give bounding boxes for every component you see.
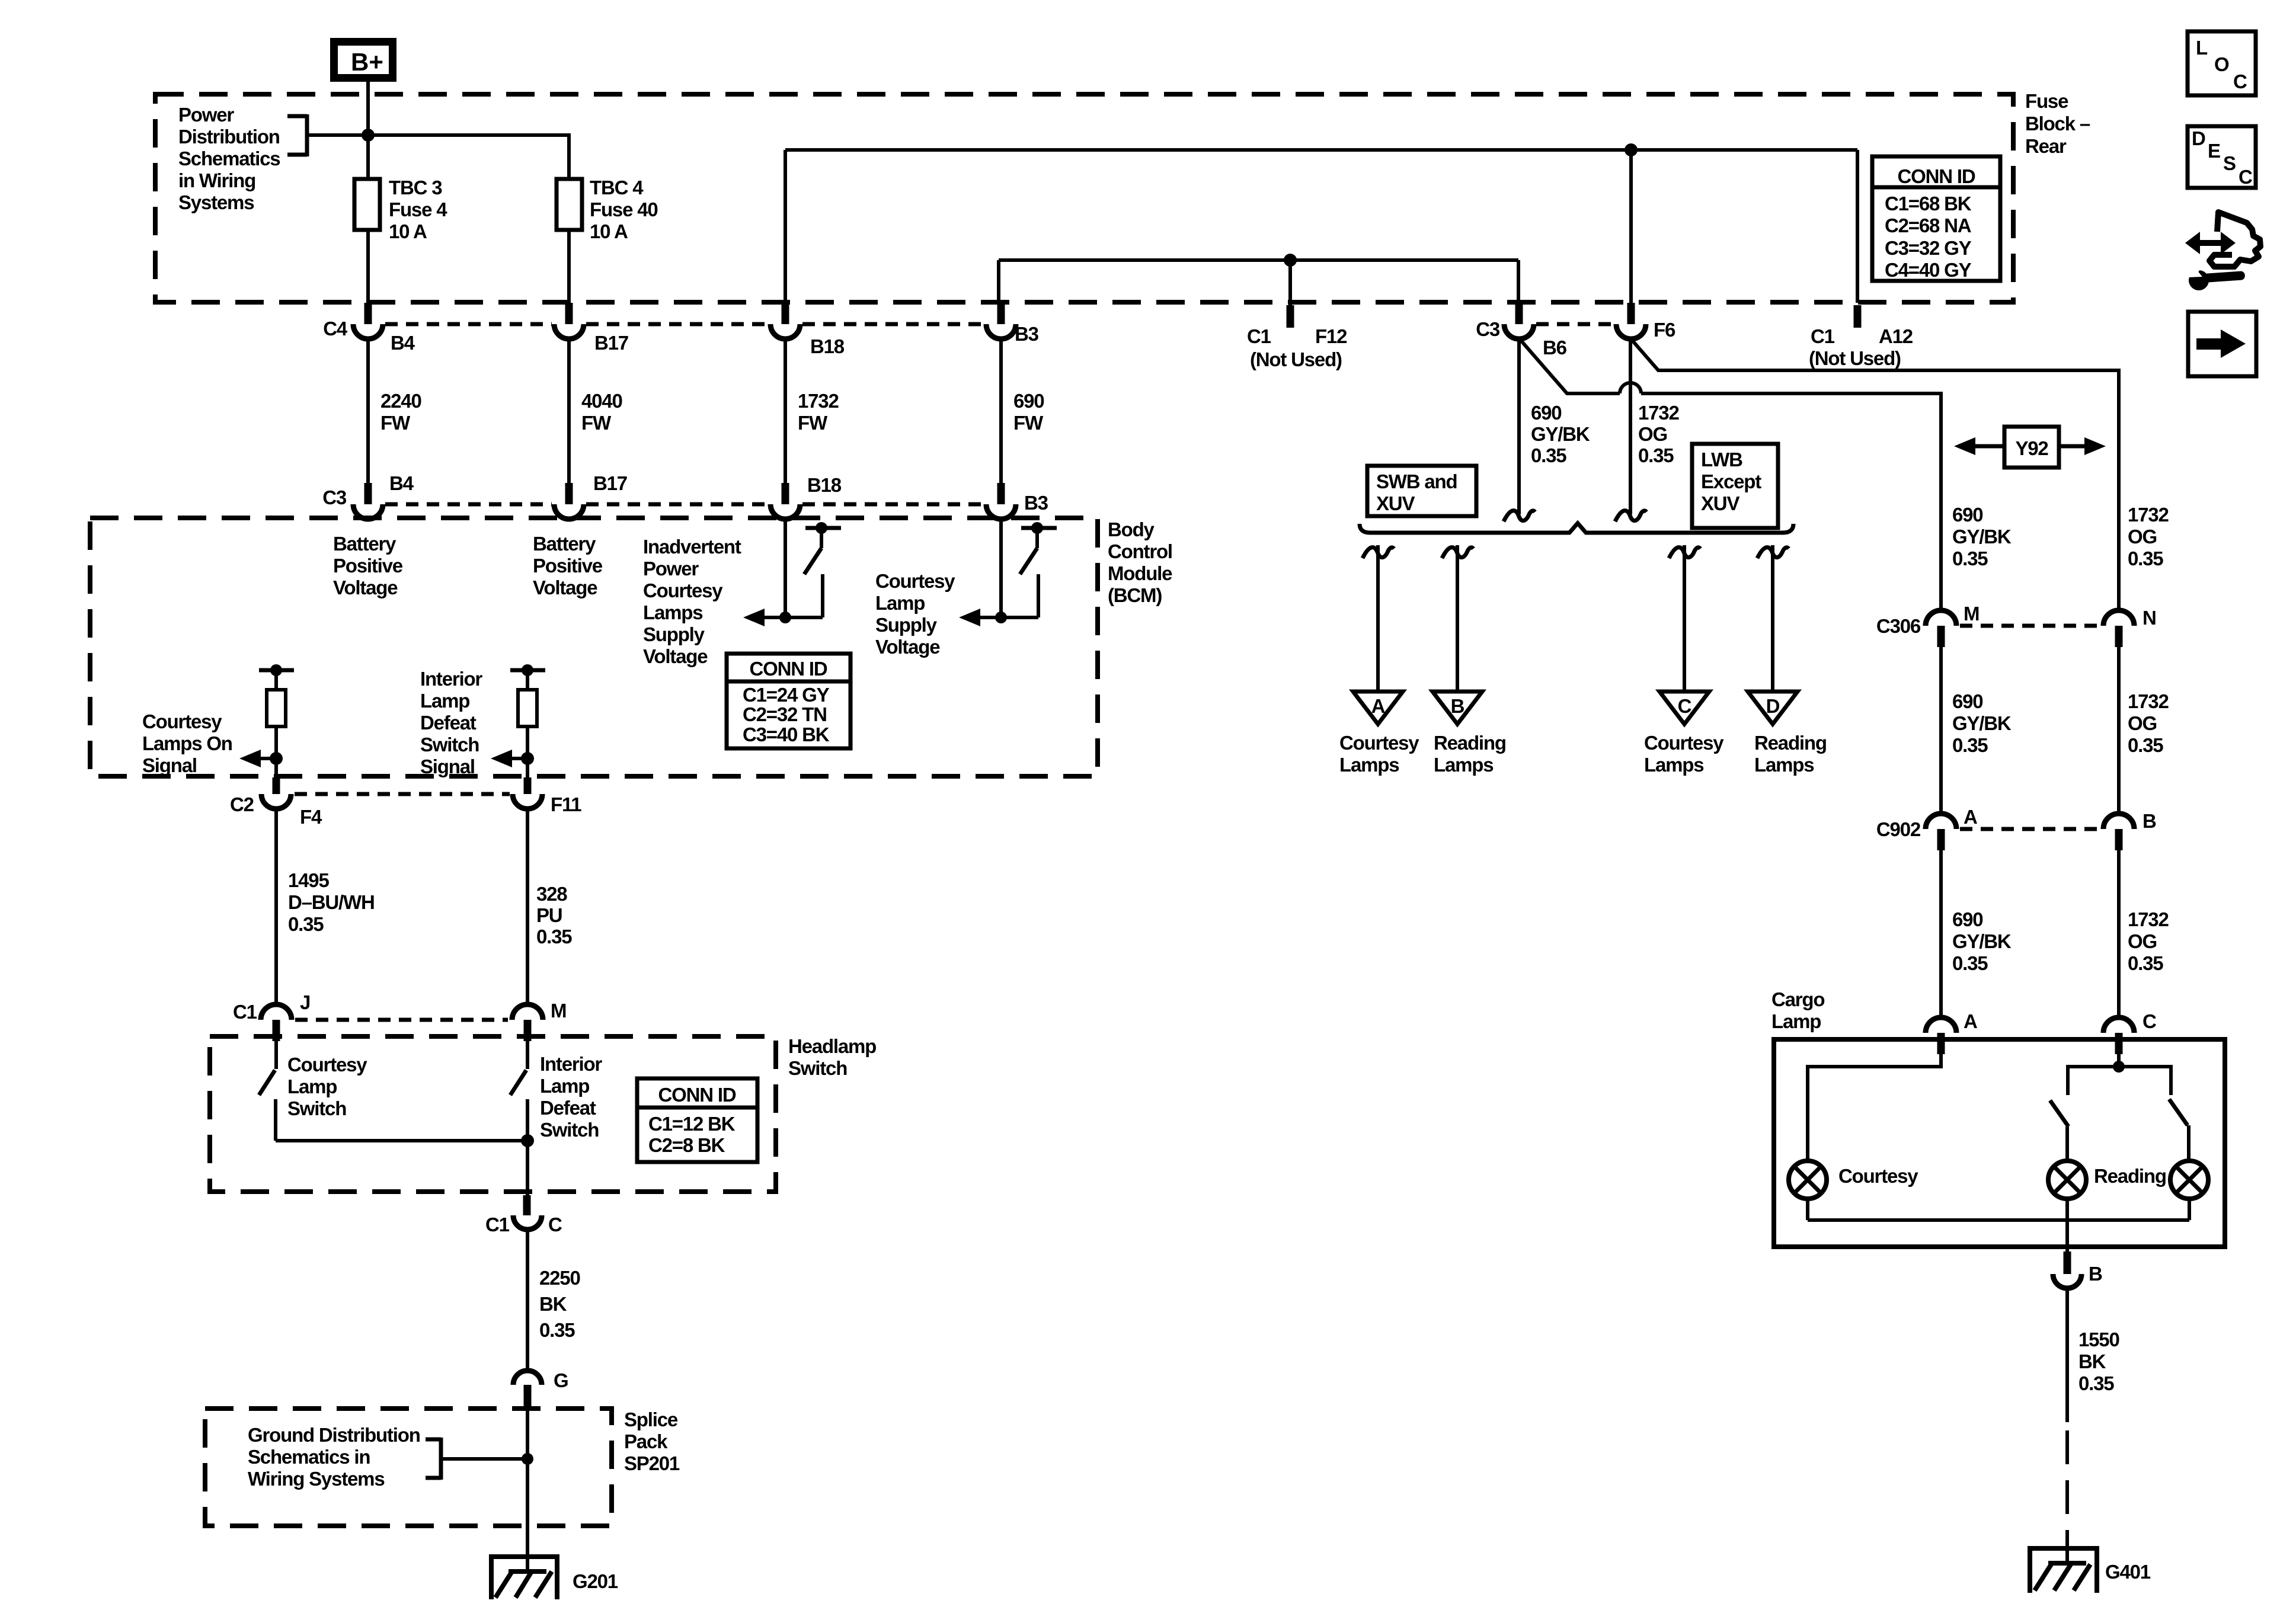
fuse TBC 3 Fuse 4 10A [354,177,447,242]
svg-text:GY/BK: GY/BK [1531,423,1590,445]
svg-text:Lamps On: Lamps On [142,732,232,754]
svg-text:C4: C4 [323,318,348,340]
svg-text:S: S [2223,152,2236,174]
svg-text:B18: B18 [810,335,845,357]
svg-text:0.35: 0.35 [2078,1372,2114,1394]
svg-text:Signal: Signal [420,756,475,777]
svg-text:GY/BK: GY/BK [1952,712,2012,734]
svg-text:B6: B6 [1543,337,1567,359]
label Fuse Block - Rear [2025,90,2090,157]
triangle ref A courtesy lamps [1339,692,1419,776]
svg-text:TBC 3: TBC 3 [389,177,442,199]
label Battery Positive Voltage (B17) [533,533,603,598]
svg-text:B17: B17 [594,332,628,354]
svg-text:Defeat: Defeat [420,712,477,734]
svg-text:N: N [2142,607,2156,629]
wire cargo lamp A branch to courtesy bulb [1808,1054,1941,1161]
label 690 GY/BK 0.35 (fuse block side) [1531,402,1590,466]
wire inadvertent power output with junction [765,616,823,619]
svg-text:Lamp: Lamp [287,1076,337,1097]
svg-text:L: L [2196,37,2208,59]
svg-text:(Not Used): (Not Used) [1250,348,1342,370]
svg-text:GY/BK: GY/BK [1952,526,2012,548]
ground G401 [2030,1548,2151,1593]
triangle ref B reading lamps [1432,692,1506,776]
svg-text:C1: C1 [1811,325,1835,347]
svg-text:0.35: 0.35 [1952,952,1988,974]
svg-text:A: A [1371,695,1385,717]
connector C902 pin B [2103,810,2156,850]
svg-text:Positive: Positive [333,555,403,577]
svg-text:A12: A12 [1879,325,1913,347]
pigtail B6 [1504,511,1535,521]
wire branch to triangle D [1771,545,1774,692]
svg-text:C2=68 NA: C2=68 NA [1885,215,1971,236]
connector B17 row2 [554,472,627,519]
wire stub B6 option pigtail [1517,338,1521,514]
svg-text:Distribution: Distribution [178,126,280,148]
wire B3 into BCM [999,518,1003,617]
svg-text:C2: C2 [230,793,254,815]
svg-text:B: B [2142,810,2156,832]
svg-text:Splice: Splice [624,1409,678,1430]
connector B17 row1 [554,303,628,354]
wire courtesy switch to defeat switch [276,1139,527,1142]
svg-text:1732: 1732 [1638,402,1679,424]
svg-text:Control: Control [1108,540,1172,562]
svg-text:Ground Distribution: Ground Distribution [248,1424,420,1446]
resistor interior lamp defeat switch signal pull-up [510,664,545,777]
wire cargo lamp C branch [2117,1054,2121,1067]
connector C4 pin B4 (fuse block to harness) [323,303,415,354]
splice pack SP201 dashed box [205,1409,612,1526]
connector F11 [513,777,581,815]
icon LOC locator box [2188,31,2256,95]
svg-text:G401: G401 [2105,1561,2151,1583]
svg-text:Courtesy: Courtesy [1339,732,1419,754]
svg-text:Lamps: Lamps [1339,754,1399,776]
svg-text:0.35: 0.35 [2128,952,2163,974]
svg-text:B18: B18 [807,474,842,496]
wire 1495 D-BU/WH 0.35 [276,809,375,1004]
svg-text:(Not Used): (Not Used) [1809,347,1901,369]
wire 690 GY/BK from C3 B6 with crossover hop [1519,338,1941,610]
note Power Distribution Schematics in Wiring Systems [178,104,280,213]
svg-text:Switch: Switch [287,1097,346,1119]
svg-text:328: 328 [536,883,567,905]
svg-text:Systems: Systems [178,191,254,213]
svg-text:SP201: SP201 [624,1452,680,1474]
junction dot reading lamps feed [2113,1061,2125,1073]
svg-text:C: C [548,1214,562,1235]
svg-text:Switch: Switch [788,1057,847,1079]
svg-text:Lamp: Lamp [875,592,925,614]
svg-text:C: C [1678,695,1691,717]
svg-text:C3: C3 [1476,318,1500,340]
svg-text:Reading: Reading [2094,1165,2166,1187]
svg-text:10 A: 10 A [590,220,628,242]
pigtail F6 [1615,511,1646,521]
connector F6 row1 [1616,303,1675,341]
svg-text:0.35: 0.35 [536,926,572,948]
wire G to ground G201 [526,1407,529,1571]
wire B18 into BCM [784,518,787,617]
arrow courtesy lamp supply signal [959,609,980,626]
svg-text:GY/BK: GY/BK [1952,930,2012,952]
svg-text:OG: OG [2128,526,2157,548]
terminal C1 A12 not used [1809,305,1913,369]
junction dot courtesy lamps on signal [270,752,283,765]
svg-text:Lamp: Lamp [540,1075,589,1097]
label Splice Pack SP201 [624,1409,680,1474]
svg-text:Body: Body [1108,518,1155,540]
svg-text:Voltage: Voltage [875,636,940,658]
wire courtesy lamp supply output with junction [980,616,1038,619]
connector row C1 headlamp mating dotted line [295,1018,508,1022]
lamp reading bulb left [2048,1161,2166,1199]
svg-text:Fuse: Fuse [2025,90,2068,112]
svg-text:F12: F12 [1315,325,1347,347]
svg-text:OG: OG [1638,423,1667,445]
wire stub F6 option pigtail [1629,338,1632,514]
svg-text:690: 690 [1952,908,1982,930]
svg-text:C3=32 GY: C3=32 GY [1885,237,1972,259]
wire branch to triangle B [1456,545,1459,692]
svg-text:10 A: 10 A [389,220,427,242]
svg-text:CONN ID: CONN ID [750,658,827,680]
svg-text:A: A [1964,1010,1977,1032]
pigtail branch A [1363,548,1394,558]
svg-text:M: M [1964,603,1979,625]
wire 690 GY/BK C306 to C902 [1941,647,2012,814]
svg-text:Lamps: Lamps [1434,754,1493,776]
headlamp switch dashed box [210,1036,776,1192]
dashed wire continuation to G401 [2065,1430,2069,1563]
lamp reading bulb right [2170,1161,2208,1199]
label 1732 OG 0.35 (fuse block side) [1638,402,1679,466]
svg-text:A: A [1964,806,1977,828]
bracket for ground distribution note [426,1438,441,1480]
label Courtesy Lamps On Signal [142,710,232,776]
svg-text:2250: 2250 [539,1267,580,1289]
svg-text:LWB: LWB [1701,449,1742,470]
svg-text:F6: F6 [1654,319,1675,341]
svg-text:Courtesy: Courtesy [643,580,723,601]
svg-text:Supply: Supply [875,614,938,636]
svg-text:C1: C1 [1247,325,1271,347]
svg-text:Lamp: Lamp [420,690,469,712]
svg-text:0.35: 0.35 [2128,548,2163,569]
pigtail branch D [1757,548,1789,558]
connector C2 pin F4 [230,777,322,828]
Y92 harness callout box with arrows [1954,427,2106,468]
svg-text:OG: OG [2128,930,2157,952]
junction dot defeat switch output [521,1134,534,1147]
junction dot F12 tap [1284,254,1297,267]
svg-text:B+: B+ [351,48,383,76]
svg-text:BK: BK [539,1293,567,1315]
svg-text:Cargo: Cargo [1771,988,1824,1010]
arrow courtesy lamps on signal [256,757,276,760]
connector row C902 mating dotted line [1960,827,2100,831]
triangle ref C courtesy lamps [1644,692,1724,776]
svg-text:1732: 1732 [2128,690,2169,712]
svg-text:BK: BK [2078,1350,2106,1372]
connector pin G splice pack [513,1369,568,1407]
wire bus from note bracket to TBC4 fuse [307,135,569,179]
svg-text:C1: C1 [485,1214,510,1235]
svg-text:C1=12 BK: C1=12 BK [648,1113,736,1135]
svg-text:Battery: Battery [333,533,396,555]
svg-text:C: C [2142,1010,2156,1032]
wire branch to triangle A [1376,545,1380,692]
wire 690 GY/BK C902 to cargo lamp [1941,850,2012,1017]
icon forward arrow box [2188,312,2256,376]
svg-text:CONN ID: CONN ID [658,1084,736,1106]
options brace [1360,523,1793,533]
crossover hop over F6 wire [1620,383,1641,393]
svg-text:Voltage: Voltage [333,577,398,598]
label Body Control Module (BCM) [1108,518,1172,606]
svg-text:G: G [554,1369,568,1391]
svg-text:0.35: 0.35 [1638,444,1674,466]
reading lamp switch left [2050,1067,2119,1161]
svg-text:F11: F11 [551,793,581,815]
BCM driver switch for B3 [1020,522,1057,617]
svg-text:Fuse 4: Fuse 4 [389,199,447,220]
svg-text:B17: B17 [593,472,627,494]
svg-text:690: 690 [1952,690,1982,712]
svg-text:Block –: Block – [2025,113,2090,135]
svg-text:C3=40 BK: C3=40 BK [743,724,830,745]
wire B+ feed down into fuse block [366,82,370,179]
svg-text:0.35: 0.35 [1531,444,1566,466]
junction node dot on B+ wire [362,129,375,142]
svg-text:Y92: Y92 [2015,437,2048,459]
svg-text:C: C [2233,71,2247,92]
connector B18 row2 [770,474,842,519]
svg-text:1732: 1732 [2128,908,2169,930]
pigtail branch C [1669,548,1700,558]
svg-text:Battery: Battery [533,533,596,555]
svg-text:(BCM): (BCM) [1108,584,1162,606]
svg-text:Lamps: Lamps [1644,754,1703,776]
wire TBC3 fuse to C4 connector [366,230,370,303]
svg-text:Switch: Switch [540,1119,599,1141]
cargo lamp box [1774,1039,2225,1247]
svg-text:0.35: 0.35 [1952,734,1988,756]
wire 1550 BK 0.35 [2067,1288,2119,1422]
connector pin M (headlamp switch) [512,1000,566,1041]
svg-text:Rear: Rear [2025,135,2067,157]
svg-text:Lamps: Lamps [1754,754,1814,776]
reading lamp switch right [2119,1067,2189,1161]
resistor courtesy lamps on signal pull-up [259,664,294,777]
connector C902 pin A [1876,806,1977,850]
wire TBC4 fuse to B17 connector [567,230,571,303]
svg-text:Signal: Signal [142,754,197,776]
svg-text:Fuse 40: Fuse 40 [590,199,658,220]
svg-text:Courtesy: Courtesy [1838,1165,1918,1187]
svg-text:C2=8 BK: C2=8 BK [648,1134,725,1156]
arrow interior lamp defeat switch signal [507,757,527,760]
connector row2 mating dotted line [385,502,984,507]
bus wire B18/F6/A12 inside fuse block [785,150,1857,303]
svg-text:Voltage: Voltage [533,577,597,598]
svg-text:Interior: Interior [420,668,482,690]
CONN ID table BCM [727,654,850,748]
svg-text:Defeat: Defeat [540,1097,596,1119]
svg-text:J: J [300,991,310,1013]
connector B3 row2 [986,483,1048,519]
connector row C306 mating dotted line [1960,624,2100,628]
svg-text:Courtesy: Courtesy [1644,732,1724,754]
svg-text:C306: C306 [1876,615,1921,637]
svg-text:M: M [551,1000,566,1022]
svg-text:XUV: XUV [1701,492,1739,514]
lamp courtesy bulb [1789,1161,1918,1199]
BCM driver switch for B18 [804,522,841,617]
svg-text:FW: FW [1013,412,1044,434]
svg-text:OG: OG [2128,712,2157,734]
triangle ref D reading lamps [1748,692,1827,776]
svg-text:O: O [2214,53,2229,75]
svg-text:Supply: Supply [643,623,705,645]
B+ battery terminal box [334,42,393,78]
svg-text:Power: Power [178,104,234,126]
terminal C1 F12 not used [1247,305,1347,370]
icon DESC description box [2188,126,2256,188]
svg-text:C2=32 TN: C2=32 TN [743,703,827,725]
svg-text:C902: C902 [1876,818,1921,840]
bracket for power distribution note [287,114,307,156]
svg-text:C1: C1 [233,1001,257,1023]
svg-text:Power: Power [643,558,699,580]
svg-text:XUV: XUV [1376,492,1415,514]
svg-text:E: E [2208,140,2220,162]
svg-text:in Wiring: in Wiring [178,169,255,191]
LWB Except XUV option box [1692,444,1778,528]
svg-text:Positive: Positive [533,555,603,577]
label Inadvertent Power Courtesy Lamps Supply Voltage [643,536,741,667]
svg-text:SWB and: SWB and [1376,470,1457,492]
fuse block - rear dashed box [155,94,2013,302]
label 1732 OG 0.35 (above C306) [2128,504,2169,569]
pigtail branch B [1442,548,1473,558]
connector pin C cargo lamp [2103,1010,2156,1054]
svg-text:Courtesy: Courtesy [875,570,955,592]
label Interior Lamp Defeat Switch [540,1053,602,1141]
svg-text:Interior: Interior [540,1053,602,1075]
connector C3 pin B6 row1 [1476,303,1566,359]
svg-text:690: 690 [1952,504,1982,526]
svg-text:PU: PU [536,904,562,926]
svg-text:1550: 1550 [2078,1329,2119,1350]
svg-text:B3: B3 [1024,492,1048,514]
wire 328 PU 0.35 [527,809,572,1004]
svg-text:Reading: Reading [1754,732,1827,754]
svg-text:B3: B3 [1015,323,1039,345]
svg-text:B4: B4 [389,472,414,494]
label 690 GY/BK 0.35 (above C306) [1952,504,2012,569]
svg-text:Courtesy: Courtesy [142,710,222,732]
svg-text:FW: FW [380,412,411,434]
svg-text:Pack: Pack [624,1430,668,1452]
svg-text:Module: Module [1108,562,1172,584]
label Interior Lamp Defeat Switch Signal [420,668,482,777]
svg-text:0.35: 0.35 [2128,734,2163,756]
svg-text:B4: B4 [391,332,415,354]
wire ground note to splice [441,1457,527,1461]
connector B3 row1 [986,303,1039,345]
svg-text:Schematics: Schematics [178,148,280,169]
svg-text:Courtesy: Courtesy [287,1054,367,1076]
svg-text:4040: 4040 [581,390,622,412]
wire 2250 BK 0.35 [527,1230,580,1371]
svg-text:690: 690 [1013,390,1044,412]
svg-text:B: B [1451,695,1464,717]
wire 1732 OG from F6 [1630,338,2119,610]
svg-text:0.35: 0.35 [288,913,324,935]
svg-text:C4=40 GY: C4=40 GY [1885,259,1972,281]
svg-text:Schematics in: Schematics in [248,1446,370,1468]
ground G201 [491,1557,618,1599]
svg-text:Lamp: Lamp [1771,1010,1821,1032]
junction dot F6 tap [1625,143,1638,156]
note Ground Distribution Schematics in Wiring Systems [248,1424,420,1490]
SWB and XUV option box [1367,466,1476,516]
svg-text:690: 690 [1531,402,1561,424]
CONN ID table headlamp switch [637,1078,757,1162]
svg-text:FW: FW [798,412,828,434]
wire 2240 FW [368,338,421,483]
connector C1 pin J (headlamp switch) [233,991,310,1041]
body control module BCM dashed box [90,518,1098,776]
interior lamp defeat switch [510,1041,527,1195]
svg-text:D: D [2192,127,2205,149]
fuse TBC 4 Fuse 40 10A [557,177,658,242]
label Battery Positive Voltage (B4) [333,533,403,598]
svg-text:C3: C3 [322,486,347,508]
bus wire B3/F12/C3 inside fuse block [999,260,1518,305]
svg-text:Lamps: Lamps [643,601,702,623]
connector row1 mating dotted line [385,322,1614,327]
CONN ID table fuse block [1872,156,2000,281]
svg-text:C1=68 BK: C1=68 BK [1885,193,1972,215]
svg-text:Headlamp: Headlamp [788,1035,876,1057]
svg-text:0.35: 0.35 [539,1319,575,1341]
courtesy lamp switch [259,1041,276,1141]
junction dot defeat switch signal [521,752,534,765]
svg-text:C1=24 GY: C1=24 GY [743,684,830,706]
wire branch to triangle C [1683,545,1686,692]
svg-text:CONN ID: CONN ID [1898,165,1975,187]
svg-text:Reading: Reading [1434,732,1506,754]
junction dot splice SP201 [522,1453,533,1465]
wire 690 FW [1001,338,1044,483]
wire 1732 OG C902 to cargo lamp [2119,850,2169,1017]
svg-text:Inadvertent: Inadvertent [643,536,741,558]
label Cargo Lamp [1771,988,1824,1032]
connector pin A cargo lamp [1926,1010,1977,1054]
svg-text:0.35: 0.35 [1952,548,1988,569]
wire 1732 OG C306 to C902 [2119,647,2169,814]
svg-text:1495: 1495 [288,869,329,891]
svg-text:Voltage: Voltage [643,645,708,667]
svg-text:Except: Except [1701,470,1761,492]
svg-text:2240: 2240 [380,390,421,412]
connector C306 pin N [2103,607,2156,647]
